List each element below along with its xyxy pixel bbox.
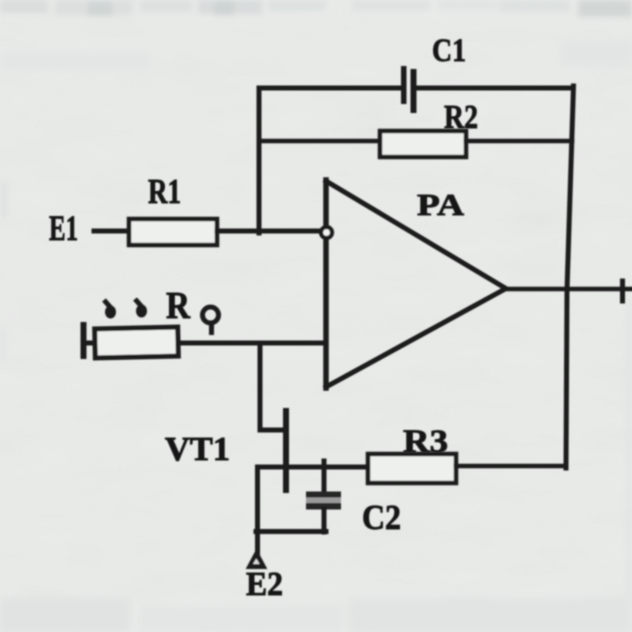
capacitor C1: [401, 66, 417, 113]
wire: C2 to bottom loop: [322, 509, 327, 532]
op-amp PA triangle: [323, 180, 329, 388]
svg-text:C1: C1: [432, 33, 466, 69]
svg-text:E1: E1: [49, 208, 78, 248]
svg-text:PA: PA: [417, 187, 465, 222]
output terminal tick: [620, 281, 625, 301]
wire: C2 stub: [322, 461, 327, 492]
wire: source line to R3: [258, 467, 369, 556]
capacitor C2: [306, 492, 341, 510]
wire: Rф to non-inverting input: [178, 341, 324, 346]
wire: tick to Rф: [86, 341, 95, 346]
subscript ф of Rф: [203, 307, 219, 323]
wire: R3 to right bus: [456, 464, 566, 469]
resistor R3: [368, 454, 456, 483]
svg-text:R: R: [166, 285, 190, 327]
wire: R1 to inverting input: [217, 229, 321, 234]
tick mark 2 above Rф: [135, 299, 142, 307]
wire: R2 right lead: [466, 139, 572, 144]
tick mark 1 above Rф: [104, 300, 111, 308]
wire: E1 lead: [94, 229, 129, 234]
wire: right vertical bus: [566, 86, 574, 468]
input terminal tick (Rф): [81, 325, 87, 356]
resistor R2: [380, 131, 466, 157]
wire: R2 left lead: [259, 139, 380, 144]
wire: top feedback wire left section + left vertical bus: [259, 88, 401, 233]
terminal E2 arrow: [249, 553, 264, 567]
svg-text:R1: R1: [148, 172, 181, 211]
svg-text:VT1: VT1: [165, 431, 230, 468]
svg-text:R3: R3: [403, 424, 448, 460]
inverting input circle: [321, 227, 332, 238]
wire: gate branch down: [260, 343, 284, 430]
wire: top feedback wire right section: [416, 86, 573, 91]
transistor VT1 gate bar: [283, 411, 289, 490]
wire: output: [505, 287, 632, 292]
wire: bottom loop: [256, 529, 326, 534]
svg-text:R2: R2: [444, 99, 478, 136]
svg-text:E2: E2: [246, 566, 283, 603]
resistor R1: [129, 219, 217, 245]
resistor Rф: [95, 327, 179, 358]
svg-text:C2: C2: [362, 498, 401, 537]
